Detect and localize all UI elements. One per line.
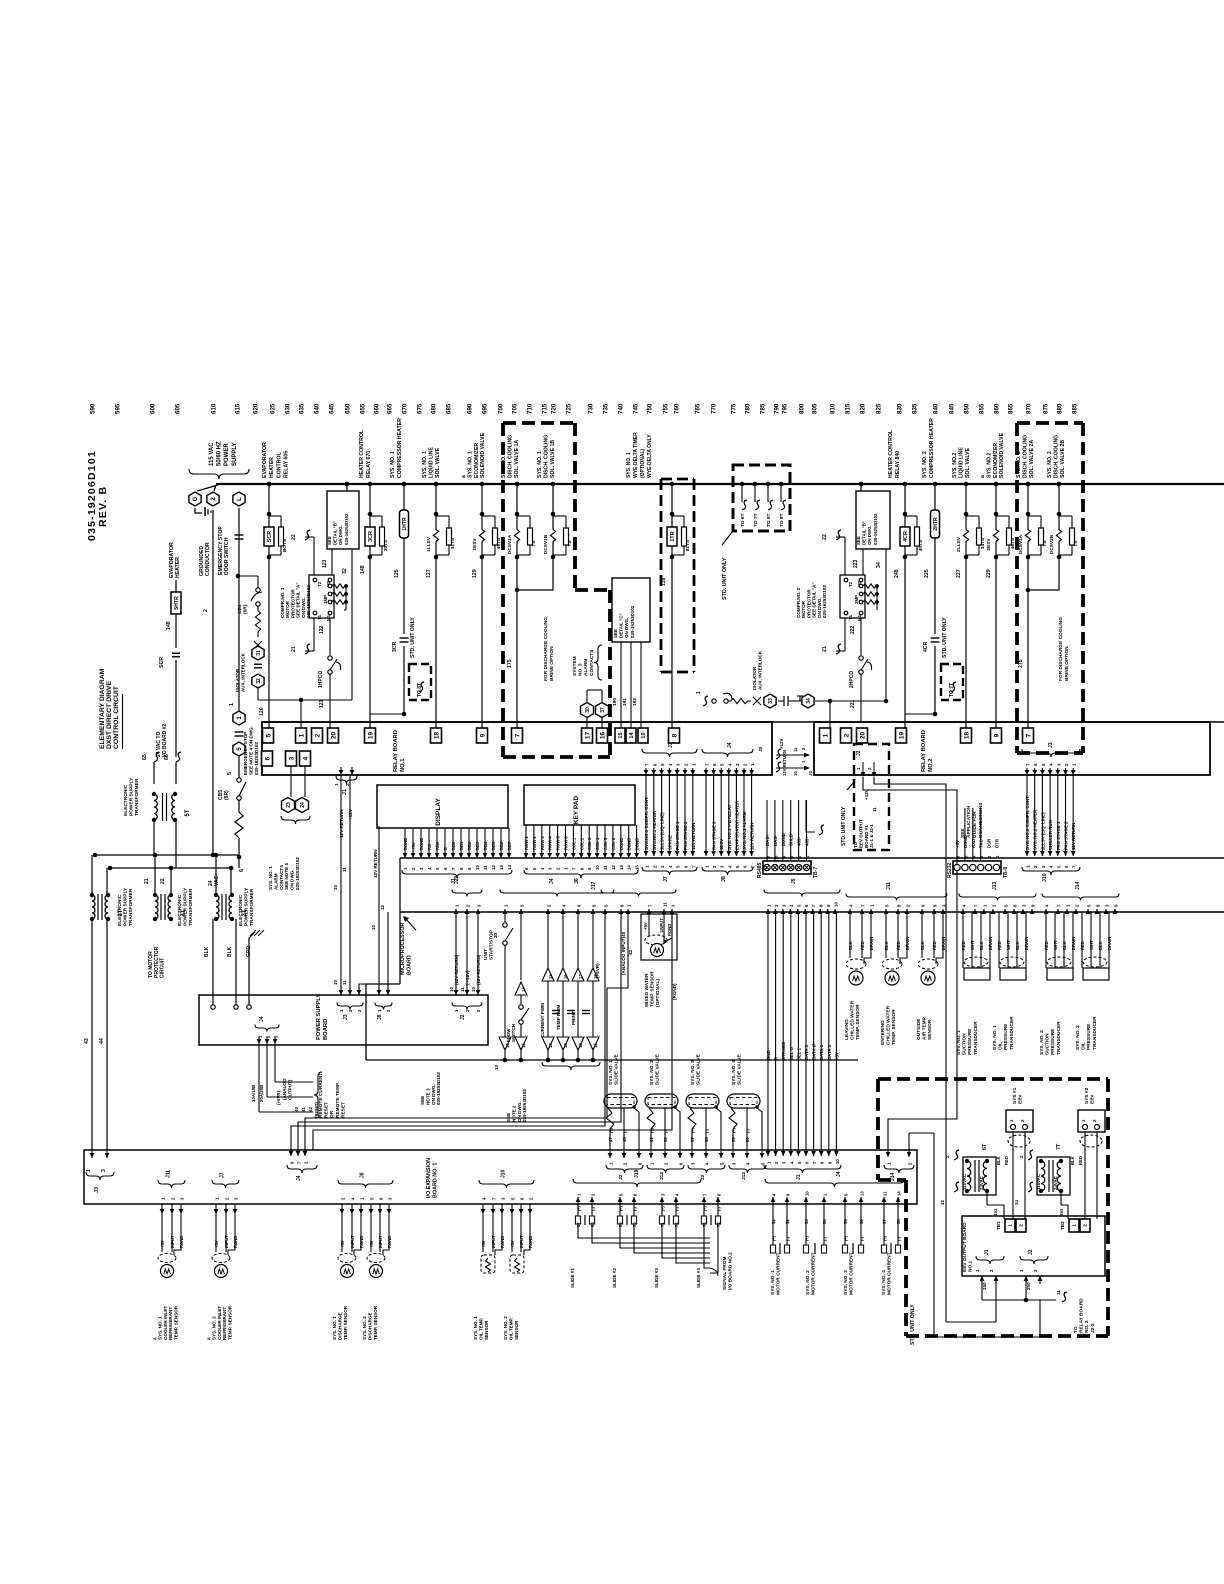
contact SCR bbox=[159, 657, 165, 668]
svg-text:TO 7T: TO 7T bbox=[949, 683, 955, 697]
svg-text:RED: RED bbox=[932, 941, 937, 950]
svg-text:43: 43 bbox=[84, 1038, 90, 1044]
wire J2-2 outer loop bbox=[1039, 1300, 1041, 1337]
label SYS NO.1 ALARM CONTACTS SEE NOTE 5 bbox=[281, 816, 310, 824]
svg-text:SYS. NO. 1: SYS. NO. 1 bbox=[473, 1316, 478, 1340]
svg-text:13: 13 bbox=[619, 865, 624, 870]
connector J13 microprocessor bbox=[961, 909, 966, 914]
terminal box 1 relay board 1 bbox=[296, 728, 307, 743]
terminal box 2 relay board 1 bbox=[312, 728, 323, 743]
svg-text:485-: 485- bbox=[797, 837, 802, 846]
svg-text:SYS. NO. 1: SYS. NO. 1 bbox=[268, 866, 273, 890]
svg-text:21: 21 bbox=[291, 646, 297, 652]
circuit breaker CB5 (8A) bbox=[218, 790, 230, 800]
svg-text:TO 8T: TO 8T bbox=[766, 513, 772, 527]
svg-text:33: 33 bbox=[768, 698, 774, 704]
svg-text:850: 850 bbox=[964, 403, 971, 414]
svg-text:775: 775 bbox=[731, 403, 738, 414]
svg-text:TEMP. SENSOR: TEMP. SENSOR bbox=[650, 971, 656, 1007]
labels CURRENT PWM TEMP PWM PRINT bbox=[540, 1003, 545, 1038]
svg-text:SYS. NO. 2: SYS. NO. 2 bbox=[805, 1270, 811, 1295]
svg-text:795: 795 bbox=[782, 403, 789, 414]
svg-text:223: 223 bbox=[853, 559, 859, 568]
svg-text:48: 48 bbox=[622, 1137, 627, 1142]
svg-text:DATA Ø: DATA Ø bbox=[812, 1043, 817, 1060]
solenoid DCSV1B with TS bbox=[551, 482, 556, 487]
svg-text:J4: J4 bbox=[259, 1016, 265, 1022]
terminal box 5 relay board 1 bbox=[263, 728, 274, 743]
svg-text:DGND: DGND bbox=[781, 833, 786, 846]
svg-text:TRANSDUCER: TRANSDUCER bbox=[1009, 1016, 1015, 1050]
svg-text:1: 1 bbox=[229, 703, 235, 706]
svg-text:3CR: 3CR bbox=[368, 531, 374, 542]
relay coil 4CR with suppressor 40TS bbox=[903, 512, 908, 517]
svg-text:50/60 HZ: 50/60 HZ bbox=[217, 441, 223, 466]
svg-text:227: 227 bbox=[956, 569, 962, 578]
svg-text:STD. UNIT ONLY: STD. UNIT ONLY bbox=[942, 617, 948, 658]
label SYS NO.1 LIQUID LINE SOL VALVE bbox=[422, 447, 441, 478]
svg-text:SHLD: SHLD bbox=[789, 834, 794, 846]
label STD UNIT ONLY with leader bbox=[722, 557, 728, 600]
svg-text:SIGNAL FROM: SIGNAL FROM bbox=[722, 1257, 728, 1291]
svg-text:ROW 4: ROW 4 bbox=[548, 836, 553, 850]
svg-text:635: 635 bbox=[299, 403, 306, 414]
svg-text:COL 6: COL 6 bbox=[611, 837, 616, 850]
svg-text:STD. UNIT ONLY: STD. UNIT ONLY bbox=[410, 617, 416, 658]
svg-text:11: 11 bbox=[460, 987, 465, 992]
svg-text:MOTOR CURRENT: MOTOR CURRENT bbox=[776, 1252, 782, 1295]
svg-text:ELECTRONIC: ELECTRONIC bbox=[117, 894, 123, 926]
svg-text:(8R): (8R) bbox=[224, 790, 230, 800]
svg-text:DISCH. COOLING: DISCH. COOLING bbox=[543, 435, 549, 478]
svg-text:12: 12 bbox=[611, 865, 616, 870]
svg-text:SYS. NO.1 Y-Δ RELAY: SYS. NO.1 Y-Δ RELAY bbox=[727, 804, 732, 850]
isolator contact bbox=[783, 696, 785, 706]
svg-text:TS: TS bbox=[531, 540, 537, 547]
connector J8 power supply board bbox=[378, 826, 380, 995]
svg-text:J7: J7 bbox=[663, 876, 669, 882]
connector J1 EEV board bbox=[976, 1256, 1004, 1264]
svg-text:151: 151 bbox=[993, 1208, 998, 1216]
svg-text:5HTR: 5HTR bbox=[174, 596, 180, 610]
svg-text:645: 645 bbox=[329, 403, 336, 414]
label SYS NO.2 DISCH COOLING SOL VALVE 2B bbox=[1047, 435, 1066, 478]
svg-text:J20: J20 bbox=[454, 875, 460, 884]
dashed option box discharge cooling no.2 bbox=[1017, 421, 1083, 425]
svg-text:SLIDE #4: SLIDE #4 bbox=[696, 1268, 701, 1288]
svg-text:BOARD NO. 1: BOARD NO. 1 bbox=[433, 1163, 439, 1198]
svg-text:19: 19 bbox=[898, 732, 905, 740]
svg-text:49: 49 bbox=[649, 1137, 654, 1142]
svg-text:835: 835 bbox=[912, 403, 919, 414]
svg-text:31: 31 bbox=[256, 650, 262, 656]
svg-text:650: 650 bbox=[345, 403, 352, 414]
svg-text:BOARD: BOARD bbox=[407, 955, 413, 975]
svg-text:485+: 485+ bbox=[805, 836, 810, 846]
svg-text:AUX. INTERLOCK: AUX. INTERLOCK bbox=[757, 650, 762, 690]
svg-text:ROW 3: ROW 3 bbox=[540, 836, 545, 850]
svg-text:(+5VR): (+5VR) bbox=[276, 1090, 281, 1105]
terminal box 7 relay board 2 bbox=[1023, 728, 1034, 743]
svg-text:FAN STAGE 3: FAN STAGE 3 bbox=[712, 821, 717, 850]
svg-text:J14: J14 bbox=[890, 1172, 896, 1181]
dashed option box discharge cooling no.1 bbox=[503, 421, 575, 425]
svg-text:765: 765 bbox=[695, 403, 702, 414]
svg-text:(+): (+) bbox=[703, 1206, 707, 1211]
svg-text:660: 660 bbox=[374, 403, 381, 414]
svg-text:OIL TEMP.: OIL TEMP. bbox=[508, 1318, 513, 1340]
terminal box 16 relay board 1 bbox=[601, 718, 603, 728]
svg-text:DRAIN: DRAIN bbox=[1107, 937, 1112, 950]
connector J14 wires from relay board 2 bbox=[886, 1150, 891, 1157]
svg-text:175: 175 bbox=[507, 659, 513, 668]
svg-text:12V RETURN: 12V RETURN bbox=[691, 823, 696, 850]
svg-text:TS: TS bbox=[567, 540, 573, 547]
svg-text:810: 810 bbox=[830, 403, 837, 414]
svg-text:DB7: DB7 bbox=[507, 841, 512, 850]
svg-text:SOLENOID VALVE: SOLENOID VALVE bbox=[999, 432, 1005, 478]
svg-text:RS: RS bbox=[427, 844, 432, 850]
svg-text:POWER SUPPLY: POWER SUPPLY bbox=[243, 887, 249, 926]
svg-text:RESET: RESET bbox=[340, 1102, 346, 1118]
wire 118 bbox=[671, 557, 673, 728]
svg-text:865: 865 bbox=[1008, 403, 1015, 414]
svg-text:30: 30 bbox=[585, 707, 591, 713]
svg-text:INPUT: INPUT bbox=[350, 1235, 355, 1248]
svg-text:J6: J6 bbox=[574, 878, 580, 884]
svg-text:SYS. NO. 2: SYS. NO. 2 bbox=[211, 1316, 216, 1340]
svg-text:RELAY BOARD: RELAY BOARD bbox=[1079, 1298, 1085, 1333]
svg-text:695: 695 bbox=[482, 403, 489, 414]
svg-text:DATA 1: DATA 1 bbox=[819, 1044, 824, 1060]
svg-text:ALARM: ALARM bbox=[273, 873, 278, 890]
svg-text:7T: 7T bbox=[1056, 1143, 1062, 1150]
svg-text:DRAIN: DRAIN bbox=[869, 937, 874, 950]
svg-text:J2: J2 bbox=[856, 750, 862, 756]
svg-text:DISPLAY: DISPLAY bbox=[435, 798, 442, 826]
svg-text:SYS. NO. 4: SYS. NO. 4 bbox=[731, 1060, 737, 1085]
hexagon 32 isolator interlock bbox=[252, 674, 264, 688]
wire 148 to terminal 19 bbox=[369, 557, 371, 728]
slide valve transducer sys no.4 bbox=[731, 1053, 743, 1085]
svg-text:J2: J2 bbox=[1028, 1249, 1034, 1255]
svg-text:DGND: DGND bbox=[627, 838, 632, 850]
svg-text:13: 13 bbox=[505, 1043, 510, 1048]
sys no.1 EEV connector bbox=[1006, 1110, 1033, 1132]
svg-text:J2: J2 bbox=[460, 1014, 466, 1020]
label SEE NOTE 2 with brace bbox=[542, 1062, 600, 1070]
svg-text:11: 11 bbox=[483, 865, 488, 870]
svg-text:MOTOR CURRENT: MOTOR CURRENT bbox=[887, 1252, 893, 1295]
svg-text:TO: TO bbox=[1073, 1326, 1079, 1333]
svg-text:19: 19 bbox=[367, 732, 374, 740]
motor protector no.2 box bbox=[840, 575, 865, 618]
wire rail to hex 2 bbox=[214, 485, 216, 491]
display wires to J1 bbox=[404, 828, 406, 850]
svg-text:J13: J13 bbox=[992, 881, 998, 890]
115 VAC 50/60 HZ POWER SUPPLY label bbox=[209, 441, 238, 466]
svg-text:CONTACTS: CONTACTS bbox=[279, 865, 284, 890]
svg-text:7: 7 bbox=[514, 733, 521, 737]
connector J4 power supply board bbox=[257, 1037, 262, 1044]
svg-text:J3: J3 bbox=[343, 1014, 349, 1020]
connector J10 microprocessor bbox=[1022, 867, 1080, 875]
svg-text:12V RETURN: 12V RETURN bbox=[373, 849, 378, 878]
label ELECTRONIC POWER SUPPLY TRANSFORMER 4T bbox=[177, 887, 194, 926]
label SYS NO.1 DISCH COOLING SOL VALVE 1A bbox=[501, 435, 520, 478]
svg-text:DB1: DB1 bbox=[459, 841, 464, 850]
svg-text:2HTR: 2HTR bbox=[933, 517, 939, 531]
wire 122 with switch 1HPCO bbox=[329, 618, 331, 655]
svg-text:+12V: +12V bbox=[779, 739, 784, 749]
svg-text:825: 825 bbox=[876, 403, 883, 414]
svg-text:COL 3: COL 3 bbox=[587, 837, 592, 850]
svg-text:+5V: +5V bbox=[834, 1052, 839, 1060]
svg-text:(+5VR): (+5VR) bbox=[595, 963, 600, 978]
svg-text:SYS. NO. 1: SYS. NO. 1 bbox=[992, 1025, 998, 1050]
svg-text:RGND: RGND bbox=[667, 924, 672, 936]
svg-text:STD. UNIT ONLY: STD. UNIT ONLY bbox=[910, 1304, 916, 1345]
svg-text:G: G bbox=[193, 496, 199, 501]
svg-text:SYS. NO. 3: SYS. NO. 3 bbox=[843, 1270, 849, 1295]
svg-text:RELAY BOARD: RELAY BOARD bbox=[921, 730, 927, 772]
svg-text:23: 23 bbox=[286, 802, 292, 808]
svg-text:SYS. NO. 2: SYS. NO. 2 bbox=[1039, 1030, 1045, 1055]
svg-text:SYS. NO. 1: SYS. NO. 1 bbox=[537, 451, 543, 478]
svg-text:10: 10 bbox=[333, 885, 338, 890]
svg-text:9: 9 bbox=[993, 733, 1000, 737]
power supply board input terminals bbox=[211, 1005, 215, 1009]
svg-text:SYS. NO. 2: SYS. NO. 2 bbox=[362, 1316, 367, 1340]
svg-text:690: 690 bbox=[467, 403, 474, 414]
emergency stop door switch contact bbox=[235, 534, 244, 536]
connector J20 microprocessor bbox=[454, 909, 459, 914]
svg-text:251: 251 bbox=[1059, 1208, 1064, 1216]
svg-text:VAC: VAC bbox=[214, 875, 220, 886]
svg-text:22: 22 bbox=[160, 878, 166, 884]
svg-text:TS: TS bbox=[1042, 540, 1048, 547]
svg-text:TB-7: TB-7 bbox=[813, 867, 819, 878]
svg-text:RS232: RS232 bbox=[947, 862, 953, 878]
svg-text:J1: J1 bbox=[984, 1249, 990, 1255]
svg-text:ROW 1: ROW 1 bbox=[524, 836, 529, 850]
svg-text:+12V: +12V bbox=[348, 808, 353, 820]
dashed box J2 EEV output wires bbox=[854, 744, 889, 850]
labels analog output 40 41 42 bbox=[282, 1078, 292, 1100]
solenoid DCSV1A with TS bbox=[515, 482, 520, 487]
svg-text:148: 148 bbox=[360, 565, 366, 574]
svg-text:CONTACTS: CONTACTS bbox=[589, 649, 595, 676]
svg-text:SLIDE VALVE: SLIDE VALVE bbox=[696, 1053, 702, 1085]
svg-text:J1: J1 bbox=[808, 770, 814, 776]
svg-text:BLK: BLK bbox=[1062, 941, 1067, 950]
svg-text:TO 9T: TO 9T bbox=[779, 513, 785, 527]
svg-text:PRESSURE: PRESSURE bbox=[1086, 1023, 1092, 1050]
svg-text:REMOTE CURRENT: REMOTE CURRENT bbox=[318, 1073, 324, 1118]
connector J4 I/O board right bbox=[772, 1193, 777, 1196]
svg-text:50: 50 bbox=[663, 1137, 668, 1142]
label SYS NO.2 COMPRESSOR HEATER bbox=[922, 418, 935, 478]
wires 5T secondary to bus bbox=[153, 820, 155, 855]
unit start/stop switch bbox=[504, 912, 506, 922]
hexagon 24 alarm contact bbox=[304, 766, 306, 797]
svg-text:ON DWG.: ON DWG. bbox=[517, 1101, 522, 1122]
svg-text:I/O EXPANSION: I/O EXPANSION bbox=[426, 1158, 432, 1198]
svg-text:+5V: +5V bbox=[955, 840, 960, 848]
connector J6 microprocessor board bbox=[524, 870, 638, 878]
svg-text:J4: J4 bbox=[836, 1171, 842, 1177]
svg-text:2MP: 2MP bbox=[854, 595, 859, 604]
svg-text:SLIDE #3: SLIDE #3 bbox=[654, 1268, 659, 1288]
connector J4 microprocessor bbox=[503, 909, 508, 914]
svg-text:TO 6T: TO 6T bbox=[740, 513, 746, 527]
svg-text:SYS. NO. 1: SYS. NO. 1 bbox=[770, 1270, 776, 1295]
svg-text:ISOLATOR: ISOLATOR bbox=[235, 668, 240, 692]
svg-text:PRESSURE: PRESSURE bbox=[1003, 1023, 1009, 1050]
svg-text:I/O BOARD #2: I/O BOARD #2 bbox=[162, 723, 168, 757]
svg-text:+5V: +5V bbox=[411, 842, 416, 850]
ground symbol grounded conductor bbox=[195, 508, 202, 513]
svg-text:SYS. NO. 1: SYS. NO. 1 bbox=[390, 451, 396, 478]
svg-text:SYS. NO.1 ALARM: SYS. NO.1 ALARM bbox=[742, 811, 747, 850]
svg-text:1HTR: 1HTR bbox=[402, 517, 408, 531]
svg-text:RED: RED bbox=[1078, 1156, 1083, 1165]
heater coil 5HTR bbox=[175, 580, 177, 592]
isolator chain no.2 bbox=[696, 691, 702, 694]
svg-text:DGND: DGND bbox=[419, 838, 424, 850]
label MICROPROCESSOR BOARD bbox=[400, 922, 413, 975]
connector J2 power supply board bbox=[452, 1003, 482, 1010]
relay board No.1 outline bbox=[262, 722, 772, 775]
svg-text:RED: RED bbox=[1044, 941, 1049, 950]
svg-text:TB2: TB2 bbox=[1060, 1221, 1065, 1230]
svg-text:755: 755 bbox=[663, 403, 670, 414]
svg-text:DCSV2A: DCSV2A bbox=[1018, 534, 1024, 554]
svg-text:WHT: WHT bbox=[1053, 940, 1058, 950]
svg-text:121: 121 bbox=[319, 699, 325, 708]
svg-text:SYS. NO. 1: SYS. NO. 1 bbox=[422, 451, 428, 478]
svg-text:SYS. NO. 2: SYS. NO. 2 bbox=[1075, 1025, 1081, 1050]
svg-text:J12: J12 bbox=[659, 1172, 665, 1180]
svg-text:11: 11 bbox=[793, 747, 798, 752]
svg-text:DRAIN: DRAIN bbox=[905, 937, 910, 950]
svg-text:SYS. NO.2 COMPR. CONT.: SYS. NO.2 COMPR. CONT. bbox=[1025, 795, 1030, 850]
svg-text:10: 10 bbox=[595, 865, 600, 870]
svg-text:SYS. NO. 1: SYS. NO. 1 bbox=[608, 1060, 614, 1085]
svg-text:40TS: 40TS bbox=[918, 539, 924, 551]
terminal box 9 relay board 1 bbox=[477, 728, 488, 743]
svg-text:WYE-DELTA TIMER: WYE-DELTA TIMER bbox=[633, 432, 639, 478]
svg-text:TO 8T: TO 8T bbox=[417, 683, 423, 697]
svg-text:13: 13 bbox=[499, 865, 504, 870]
timer coil 1TR with suppressor 81TS bbox=[670, 482, 675, 487]
svg-text:LIQUID LINE: LIQUID LINE bbox=[958, 447, 964, 478]
svg-text:J19: J19 bbox=[634, 1169, 640, 1178]
svg-text:INPUT: INPUT bbox=[378, 1235, 383, 1248]
svg-text:815: 815 bbox=[845, 403, 852, 414]
svg-text:2: 2 bbox=[314, 733, 321, 737]
connector J3/J7 wires relay board1 to microprocessor bbox=[645, 763, 650, 766]
svg-text:DB3: DB3 bbox=[475, 841, 480, 850]
motor current transformer groups bbox=[771, 1219, 776, 1224]
svg-text:SLIDE VALVE: SLIDE VALVE bbox=[737, 1053, 743, 1085]
svg-text:1: 1 bbox=[86, 1169, 92, 1172]
svg-text:3: 3 bbox=[101, 1169, 107, 1172]
svg-text:J17: J17 bbox=[591, 881, 597, 890]
label FOR DISCHARGE COOLING BRINE OPTION no.2 bbox=[1058, 617, 1070, 681]
svg-text:J11: J11 bbox=[166, 1170, 172, 1178]
svg-text:DISCHARGE: DISCHARGE bbox=[367, 1312, 372, 1340]
EEV output board no.1 outline bbox=[962, 1216, 1105, 1276]
svg-text:115VAC: 115VAC bbox=[1036, 1173, 1041, 1190]
label 24 VAC bbox=[208, 875, 220, 886]
relay coil 3CR with suppressor 30TS bbox=[368, 482, 373, 487]
wires EEV to TB1 bbox=[996, 1156, 1001, 1165]
svg-text:605: 605 bbox=[175, 403, 182, 414]
label +5VR remote bbox=[276, 1090, 281, 1105]
svg-text:120: 120 bbox=[259, 707, 265, 716]
svg-text:ROW 6: ROW 6 bbox=[564, 836, 569, 850]
label HEATER CONTROL RELAY 670 bbox=[359, 429, 372, 478]
svg-text:625: 625 bbox=[270, 403, 277, 414]
stub 21 no.2 bbox=[822, 646, 828, 652]
svg-text:EVAPORATOR: EVAPORATOR bbox=[262, 442, 268, 478]
slide valve potentiometer columns J19 bbox=[577, 1193, 582, 1196]
stub 22 no.2 bbox=[822, 534, 828, 540]
svg-text:FOR DISCHARGE COOLING: FOR DISCHARGE COOLING bbox=[1058, 617, 1064, 681]
solenoid 2ESV with 46TS bbox=[994, 482, 999, 487]
svg-text:REFRIGERANT: REFRIGERANT bbox=[168, 1307, 173, 1340]
connector J14 microprocessor bbox=[1044, 909, 1049, 914]
svg-text:SYS. NO.2 HEATER: SYS. NO.2 HEATER bbox=[1033, 809, 1038, 850]
svg-text:4CR: 4CR bbox=[903, 531, 909, 542]
svg-text:3CR: 3CR bbox=[392, 641, 398, 652]
svg-text:13: 13 bbox=[593, 1043, 598, 1048]
svg-text:12: 12 bbox=[380, 905, 385, 910]
svg-text:DETAIL "C": DETAIL "C" bbox=[619, 613, 624, 638]
svg-text:REFRIGERANT: REFRIGERANT bbox=[222, 1307, 227, 1340]
svg-text:855: 855 bbox=[979, 403, 986, 414]
svg-text:INPUT: INPUT bbox=[224, 1235, 229, 1248]
svg-text:TEMP. SENSOR: TEMP. SENSOR bbox=[891, 1009, 897, 1045]
svg-text:EEV OUTPUT: EEV OUTPUT bbox=[858, 819, 863, 848]
svg-text:(+): (+) bbox=[650, 1128, 654, 1133]
chassis ground wire GRD bbox=[246, 946, 252, 958]
wire to hook 66 bbox=[175, 660, 177, 757]
svg-text:RESET: RESET bbox=[324, 1102, 330, 1118]
terminal box 18 relay board 2 bbox=[961, 728, 972, 743]
svg-text:(+): (+) bbox=[691, 1128, 695, 1133]
svg-text:DRAIN: DRAIN bbox=[1024, 937, 1029, 950]
svg-text:SUCTION: SUCTION bbox=[962, 1033, 968, 1055]
label FOR DISCHARGE COOLING BRINE OPTION bbox=[543, 617, 555, 681]
transformer 6T bbox=[963, 1157, 996, 1195]
wires J5 to I/O board J1 bbox=[767, 912, 769, 1150]
wires J20 to power supply J2 bbox=[455, 912, 457, 995]
svg-text:15: 15 bbox=[548, 974, 553, 979]
wire to junction bbox=[403, 664, 405, 714]
svg-text:CB1: CB1 bbox=[237, 604, 243, 614]
connector J3 power supply board bbox=[339, 987, 344, 995]
svg-text:4: 4 bbox=[302, 756, 309, 760]
pressure transducer labels bbox=[956, 1021, 979, 1055]
svg-text:WHT: WHT bbox=[1006, 940, 1011, 950]
svg-text:WYE-DELTA ONLY: WYE-DELTA ONLY bbox=[647, 434, 653, 478]
svg-text:65: 65 bbox=[142, 754, 148, 760]
svg-text:SYS. NO. 1: SYS. NO. 1 bbox=[332, 1316, 337, 1340]
power supply board outline bbox=[199, 995, 488, 1045]
svg-text:PRESSURE: PRESSURE bbox=[967, 1028, 973, 1055]
